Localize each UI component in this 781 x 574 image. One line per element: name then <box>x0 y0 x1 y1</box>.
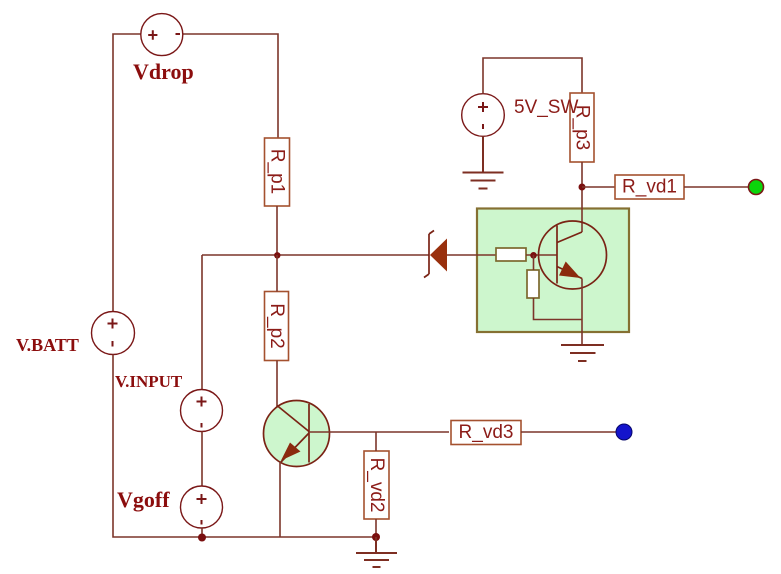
svg-text:V.BATT: V.BATT <box>16 335 79 355</box>
label 5V_SW <box>514 97 578 118</box>
ground below R_vd2 <box>356 537 397 567</box>
node junction base divider <box>530 252 537 259</box>
svg-text:R_vd2: R_vd2 <box>366 458 387 513</box>
wire Vgoff bottom to node <box>201 528 203 537</box>
node junction R_p1/R_p2 <box>274 252 280 258</box>
node junction R_vd2 ground <box>372 533 380 541</box>
svg-text:R_vd1: R_vd1 <box>622 177 677 198</box>
wire R_vd3 to blue node <box>521 431 616 433</box>
resistor R_p3 <box>570 93 594 162</box>
label Vgoff <box>117 487 170 512</box>
svg-text:R_p1: R_p1 <box>267 149 288 194</box>
label V.INPUT <box>115 372 183 391</box>
wire Q2 base to R_vd3 <box>309 431 449 433</box>
subcircuit box (switch block) <box>477 209 629 333</box>
ground below Q1 emitter <box>561 345 604 361</box>
svg-text:R_vd3: R_vd3 <box>459 422 514 443</box>
resistor R_p1 <box>265 138 290 206</box>
wire R_p3 bottom into box <box>581 162 583 232</box>
voltage source Vgoff <box>181 486 223 528</box>
node junction R_vd1 tap <box>579 184 586 191</box>
voltage source Vdrop <box>141 14 183 56</box>
wire horizontal bus y=255 <box>202 254 429 256</box>
voltage source V.INPUT <box>181 390 223 432</box>
wire node to R_p2 top <box>276 255 278 292</box>
voltage source 5V_SW <box>462 94 505 137</box>
resistor R_vd2 <box>364 451 389 519</box>
wire V.INPUT to Vgoff <box>201 432 203 487</box>
resistor R_vd1 <box>615 175 684 199</box>
label Vdrop <box>133 59 194 84</box>
wire base resistor to Q1 base <box>526 254 557 256</box>
svg-text:R_p2: R_p2 <box>266 303 287 348</box>
wire node to R_vd1 <box>582 186 615 188</box>
voltage source V.BATT <box>92 312 135 355</box>
wire R_vd1 to green node <box>684 186 749 188</box>
transistor Q1 NPN <box>539 221 607 289</box>
transistor Q2 PNP <box>264 401 330 467</box>
wire diode to base resistor <box>447 254 496 256</box>
resistor base (unlabeled) <box>496 248 526 261</box>
wire R_p1 bottom to node <box>276 206 278 255</box>
wire base bus to R_vd2 top <box>375 432 377 451</box>
node junction bottom rail <box>198 534 206 542</box>
wire node down to V.INPUT <box>201 255 203 390</box>
wire R_vd2 bottom to ground node <box>375 519 377 537</box>
wire pulldown bottom to emitter <box>534 298 583 320</box>
ground below 5V_SW <box>463 136 504 188</box>
resistor R_p2 <box>265 292 289 361</box>
diode D1 zener <box>424 231 447 278</box>
wire Vdrop right to R_p1 top <box>183 34 278 138</box>
node green output <box>749 180 764 195</box>
resistor pulldown (unlabeled) <box>527 270 539 298</box>
svg-text:5V_SW: 5V_SW <box>514 97 578 118</box>
label V.BATT <box>16 335 79 355</box>
svg-text:Vdrop: Vdrop <box>133 59 194 84</box>
svg-text:Vgoff: Vgoff <box>117 487 170 512</box>
resistor R_vd3 <box>451 421 521 445</box>
wire Q2 emitter down to bottom rail <box>279 462 281 537</box>
wire 5V_SW top loop to R_p3 <box>483 58 582 94</box>
wire R_p2 bottom to Q2 collector <box>276 361 278 408</box>
wire left rail V.BATT to bottom <box>113 355 376 538</box>
svg-text:V.INPUT: V.INPUT <box>115 372 183 391</box>
wire node to pulldown top <box>533 255 535 270</box>
wire Q1 emitter down to ground <box>581 279 583 346</box>
node blue output <box>616 424 632 440</box>
wire left rail top from Vdrop to V.BATT <box>113 34 141 312</box>
